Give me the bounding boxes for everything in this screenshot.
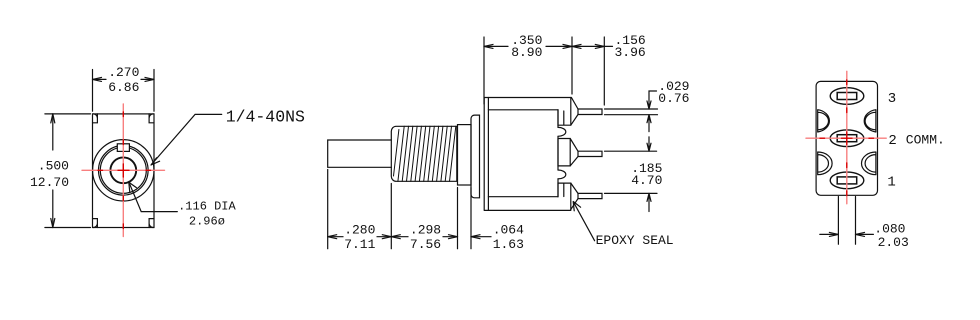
dimension .156/3.96 extension line (603, 37, 605, 105)
svg-text:COMM.: COMM. (906, 132, 945, 147)
dimension text .185/4.70 (631, 161, 662, 188)
left side bump upper (818, 110, 830, 132)
terminal slot 2 (middle) ellipse (830, 130, 864, 147)
body outline side view (484, 98, 578, 211)
svg-text:.116 DIA: .116 DIA (178, 199, 236, 213)
dimension text .156/3.96 (614, 33, 645, 60)
threaded bushing (391, 126, 457, 181)
shaft circle (110, 157, 136, 183)
svg-text:2.03: 2.03 (878, 235, 909, 250)
svg-text:7.56: 7.56 (410, 237, 441, 252)
thread hatch lines (394, 126, 456, 181)
label 2 COMM. (888, 132, 944, 149)
red centerline vertical front view (122, 104, 124, 237)
dimension .029/0.76 leader and arrows (647, 91, 657, 132)
body inner top line (488, 109, 558, 111)
svg-text:EPOXY SEAL: EPOXY SEAL (596, 233, 674, 248)
label 1/4-40NS (226, 108, 305, 127)
epoxy face line with bulges (558, 110, 566, 197)
bushing rim circle outer (99, 146, 149, 196)
dimension .280/7.11 line and arrows (328, 235, 392, 239)
dimension text .080/2.03 (874, 222, 909, 251)
pin 3 edge extension lines (605, 109, 658, 115)
dimension .298/7.56 line and arrows (391, 235, 457, 239)
dimension .156/3.96 line and arrows (572, 44, 613, 48)
terminal slot 3 (top) ellipse (830, 88, 864, 105)
bushing outer circle (93, 140, 154, 201)
right side bump upper (864, 110, 876, 132)
dimension .080/2.03 arrows (820, 232, 874, 236)
pin 2 (middle) (578, 151, 602, 156)
body inner vertical line (487, 98, 489, 211)
right side bump lower (862, 152, 876, 175)
svg-text:7.11: 7.11 (344, 237, 375, 252)
dimension .064/1.63 arrows and tail (471, 235, 491, 239)
shaft (328, 140, 392, 167)
pin 1 (bottom) (578, 193, 602, 198)
pin 3 (top) (578, 109, 602, 115)
dimension .350/8.90 extension lines (484, 37, 572, 104)
leader EPOXY SEAL (573, 202, 594, 241)
dimension .298/7.56 extension lines (457, 188, 459, 249)
terminal 2 (middle) base (558, 139, 578, 166)
dimension text .270/6.86 (108, 65, 139, 95)
svg-text:4.70: 4.70 (631, 173, 662, 188)
dimension .500/12.70 extension lines (45, 114, 91, 228)
pin 2 top extension line (605, 150, 657, 152)
dimension .080/2.03 extension lines (838, 197, 855, 245)
dimension .064/1.63 extension line (470, 188, 472, 249)
label 1 (887, 174, 895, 190)
svg-text:.280: .280 (344, 223, 375, 238)
svg-text:.064: .064 (493, 223, 524, 238)
red centerline horizontal rear view (806, 137, 886, 139)
svg-text:2.96ø: 2.96ø (189, 215, 225, 229)
dimension .270/6.86 line and arrows (93, 77, 155, 81)
bushing rim circle inner (100, 147, 146, 193)
dimension .280/7.11 extension lines (328, 170, 392, 249)
dimension text .280/7.11 (344, 223, 375, 252)
terminal slot 1 (bottom) ellipse (830, 172, 864, 189)
svg-text:2: 2 (888, 133, 896, 149)
body inner bottom line (488, 196, 558, 198)
label .116 DIA / 2.96 dia (178, 199, 236, 228)
svg-text:.298: .298 (410, 223, 441, 238)
label 3 (888, 91, 896, 107)
corner tab top-right (149, 114, 154, 123)
rear view body rounded rect (816, 81, 877, 195)
corner tab bottom-left (93, 219, 98, 228)
label EPOXY SEAL (596, 233, 674, 248)
terminal slot 2 inner rect (837, 135, 857, 142)
washer (458, 125, 472, 185)
svg-text:12.70: 12.70 (30, 175, 69, 190)
svg-text:1.63: 1.63 (493, 237, 524, 252)
svg-text:.270: .270 (108, 65, 139, 80)
svg-text:3: 3 (888, 91, 896, 107)
terminal slot 3 inner rect (837, 93, 857, 100)
dimension text .298/7.56 (410, 223, 441, 252)
flange plate (471, 115, 480, 198)
svg-text:1/4-40NS: 1/4-40NS (226, 108, 305, 127)
pin 1 top extension line (605, 192, 658, 194)
svg-text:8.90: 8.90 (511, 45, 542, 60)
dimension text .500/12.70 (30, 158, 69, 190)
corner tab bottom-right (149, 219, 154, 228)
dimension text .029/0.76 (658, 79, 689, 106)
dimension text .064/1.63 (493, 223, 524, 252)
dimension .350/8.90 line and arrows (484, 44, 572, 48)
red centerline vertical rear view (846, 71, 848, 204)
red centerline horizontal front view (82, 169, 165, 171)
svg-text:.500: .500 (38, 158, 69, 173)
keyway rectangle (117, 144, 129, 152)
leader 1/4-40NS (151, 114, 222, 165)
dimension .270/6.86 extension lines (93, 70, 155, 112)
svg-text:0.76: 0.76 (658, 91, 689, 106)
svg-text:6.86: 6.86 (108, 80, 139, 95)
red centerline dark dashes front view (98, 112, 151, 229)
red centerline dark dashes rear view (820, 80, 874, 196)
terminal 1 (bottom) base (558, 183, 578, 210)
dimension .500/12.70 line and arrows (51, 114, 55, 228)
corner tab top-left (93, 114, 98, 123)
dimension text .350/8.90 (511, 33, 542, 60)
terminal 3 (top) base (558, 98, 578, 126)
svg-text:3.96: 3.96 (614, 45, 645, 60)
svg-text:1: 1 (887, 174, 895, 190)
left side bump lower (818, 152, 832, 175)
terminal slot 1 inner rect (837, 177, 857, 184)
leader .116 DIA (129, 182, 178, 211)
front view body rectangle (93, 114, 155, 228)
dimension .185/4.70 arrows (647, 137, 651, 212)
